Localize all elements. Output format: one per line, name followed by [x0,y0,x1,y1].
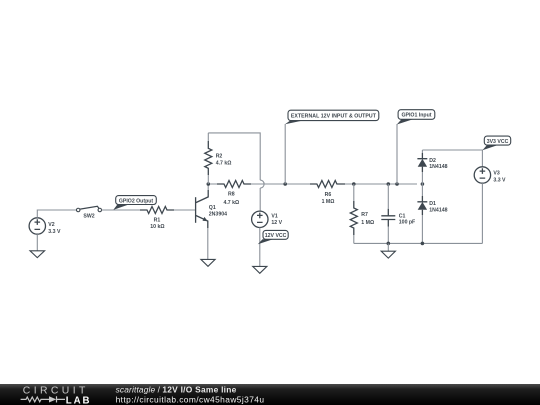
svg-text:LAB: LAB [66,395,92,405]
wire R2 top leads [207,133,209,184]
node C1 junction [387,182,391,186]
svg-text:GPIO2 Output: GPIO2 Output [119,198,154,204]
flag GPIO2 Output [113,196,156,210]
svg-text:12V VCC: 12V VCC [265,233,287,239]
wire Q1 emitter down [207,228,209,259]
svg-text:1N4148: 1N4148 [429,164,447,170]
flag GPIO1 Input [397,110,435,125]
node diode column junction [421,182,425,186]
wire hop to V1 [259,188,261,211]
svg-text:3.3 V: 3.3 V [493,177,506,183]
svg-text:R7: R7 [361,212,368,218]
flag EXTERNAL 12V INPUT & OUTPUT [285,110,379,124]
svg-text:http://circuitlab.com/cw45haw5: http://circuitlab.com/cw45haw5j374u [116,395,265,405]
wire D2 leads [421,150,423,184]
node D1 bottom junction [421,242,425,246]
resistor R8 [217,181,251,206]
svg-text:R1: R1 [154,218,161,224]
svg-text:R2: R2 [216,154,223,160]
svg-text:GPIO1 Input: GPIO1 Input [402,113,432,119]
wire D1 leads [421,184,423,243]
logo resistor-diode art [21,396,65,402]
diode D1 [417,196,447,215]
svg-text:V2: V2 [48,222,54,228]
diode D2 [417,153,447,172]
svg-text:scarittagle / 12V I/O Same lin: scarittagle / 12V I/O Same line [116,385,237,395]
wire SW2 to R1 [102,209,147,211]
capacitor C1 [381,209,415,227]
transistor Q1 [196,190,227,228]
ground below Q1 emitter [201,259,215,266]
wire V3 bottom to rail [481,183,483,243]
resistor R2 [205,141,232,175]
svg-text:4.7 kΩ: 4.7 kΩ [216,160,232,166]
node R7 junction [352,182,356,186]
svg-text:V3: V3 [493,171,499,177]
footer bar [0,384,540,405]
svg-text:3V3 VCC: 3V3 VCC [487,139,509,145]
svg-text:Q1: Q1 [209,205,216,211]
main wire R8 to diodes [210,183,417,185]
wire V1 bottom [259,228,261,267]
bottom rail wire [354,242,483,244]
svg-text:EXTERNAL 12V INPUT & OUTPUT: EXTERNAL 12V INPUT & OUTPUT [291,113,377,119]
ground below rail [381,243,395,258]
wire top rail to V3 [422,150,482,167]
svg-text:10 kΩ: 10 kΩ [150,224,164,230]
svg-text:1 MΩ: 1 MΩ [361,220,374,226]
wire external flag stem [284,124,286,184]
node GPIO1 flag junction [395,182,399,186]
node collector junction [207,182,211,186]
svg-text:SW2: SW2 [83,214,94,220]
wire V2 to SW2 [37,210,76,218]
svg-text:R8: R8 [228,192,235,198]
wire R7 leads [353,184,355,243]
switch SW2 [76,206,101,219]
svg-text:D2: D2 [429,158,436,164]
resistor R1 [140,207,174,231]
svg-text:D1: D1 [429,201,436,207]
svg-text:3.3 V: 3.3 V [48,229,61,235]
voltage source V3 [474,167,506,184]
voltage source V1 [252,211,283,227]
wire hop over main wire [260,180,264,188]
svg-text:12 V: 12 V [271,220,282,226]
flag 12V VCC [258,230,288,244]
svg-text:100 pF: 100 pF [399,219,415,225]
flag 3V3 VCC [482,136,510,150]
svg-text:2N3904: 2N3904 [209,212,227,218]
resistor R6 [310,181,345,205]
wire top rail R2 to V1 [208,133,260,180]
svg-text:R6: R6 [325,192,332,198]
ground below V2 [30,234,45,257]
node external flag junction [283,182,287,186]
wire GPIO1 flag stem [396,124,398,184]
wire C1 leads [387,184,389,243]
svg-text:1 MΩ: 1 MΩ [322,199,335,205]
wire R1 to Q1 base [174,209,196,211]
wire Q1 collector to node [207,184,209,190]
svg-text:1N4148: 1N4148 [429,207,447,213]
svg-text:V1: V1 [271,213,277,219]
voltage source V2 [29,218,61,235]
node ground junction on rail [387,242,391,246]
svg-text:4.7 kΩ: 4.7 kΩ [223,200,239,206]
resistor R7 [350,201,374,235]
ground below V1 [253,266,267,273]
